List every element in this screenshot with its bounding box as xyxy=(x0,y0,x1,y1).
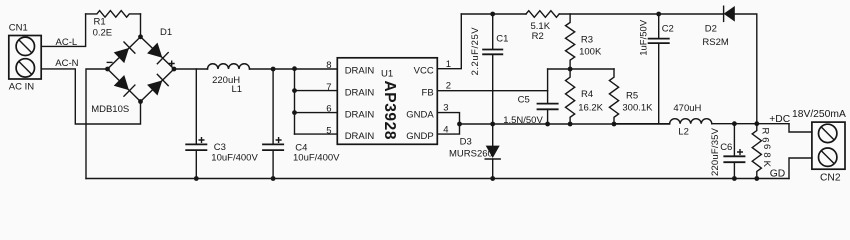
svg-text:AC IN: AC IN xyxy=(9,82,34,93)
diode bottom-left arm xyxy=(114,75,135,96)
svg-text:AC-N: AC-N xyxy=(55,58,78,69)
connector CN2 xyxy=(812,122,845,169)
svg-text:AP3928: AP3928 xyxy=(381,81,398,140)
svg-text:DRAIN: DRAIN xyxy=(345,88,375,99)
svg-text:0.2E: 0.2E xyxy=(93,27,113,38)
svg-text:GNDP: GNDP xyxy=(406,131,433,142)
capacitor C4 xyxy=(272,69,274,144)
wire AC-N xyxy=(41,69,140,124)
wire minus to ground rail xyxy=(86,69,108,179)
svg-text:18V/250mA: 18V/250mA xyxy=(792,109,846,120)
svg-text:R4: R4 xyxy=(581,89,593,100)
svg-text:8: 8 xyxy=(326,60,331,71)
capacitor C6 xyxy=(733,124,735,156)
svg-text:C5: C5 xyxy=(518,95,530,106)
svg-text:R1: R1 xyxy=(94,17,106,28)
svg-text:16.2K: 16.2K xyxy=(578,103,603,114)
svg-text:DRAIN: DRAIN xyxy=(345,131,375,142)
svg-text:300.1K: 300.1K xyxy=(622,103,653,114)
diode top-right arm xyxy=(147,42,168,63)
svg-text:FB: FB xyxy=(422,88,434,99)
top rail right corner down xyxy=(735,14,757,124)
wire GNDP pin4 xyxy=(437,124,459,134)
svg-text:GNDA: GNDA xyxy=(406,110,434,121)
connector CN1 xyxy=(9,36,41,80)
IC left drain bus xyxy=(294,69,296,134)
svg-text:MDB10S: MDB10S xyxy=(91,104,129,115)
diode bottom-right arm xyxy=(147,74,168,95)
minus sign xyxy=(107,61,112,63)
capacitor C2 xyxy=(658,14,660,38)
wire + rail to L1 xyxy=(174,68,208,70)
resistor R6 xyxy=(752,124,761,179)
svg-text:6: 6 xyxy=(326,104,331,115)
svg-text:470uH: 470uH xyxy=(673,103,701,114)
svg-text:10uF/400V: 10uF/400V xyxy=(293,152,340,163)
svg-text:+DC: +DC xyxy=(769,114,790,125)
top rail cont xyxy=(559,13,723,15)
svg-text:RS2M: RS2M xyxy=(702,37,728,48)
svg-text:L1: L1 xyxy=(232,84,243,95)
resistor R5 xyxy=(609,69,618,124)
svg-text:100K: 100K xyxy=(579,47,602,58)
op IC U1 AP3928 xyxy=(337,58,437,145)
inductor L1 xyxy=(208,64,250,69)
svg-text:D1: D1 xyxy=(160,27,172,38)
svg-text:D3: D3 xyxy=(460,136,472,147)
wire output gnd to CN2 xyxy=(789,158,812,179)
svg-text:R5: R5 xyxy=(626,91,638,102)
svg-text:CN2: CN2 xyxy=(820,172,841,183)
svg-text:2.2uF/25V: 2.2uF/25V xyxy=(470,27,481,76)
svg-text:C2: C2 xyxy=(662,23,674,34)
ground rail xyxy=(86,178,789,180)
resistor R4 xyxy=(566,69,575,124)
top rail xyxy=(461,13,526,15)
resistor R1 xyxy=(86,11,141,18)
wire L1 to IC xyxy=(250,68,338,70)
svg-text:3: 3 xyxy=(443,103,448,114)
capacitor C1 xyxy=(492,14,494,49)
resistor R3 xyxy=(566,14,575,69)
svg-text:68K: 68K xyxy=(761,144,772,168)
svg-text:R3: R3 xyxy=(581,35,593,46)
svg-text:L2: L2 xyxy=(678,126,689,137)
svg-text:U1: U1 xyxy=(381,69,393,80)
capacitor C3 xyxy=(195,69,197,144)
svg-text:CN1: CN1 xyxy=(9,23,28,34)
svg-text:1.5N/50V: 1.5N/50V xyxy=(503,115,543,126)
svg-text:1uF/50V: 1uF/50V xyxy=(639,19,650,56)
bridge rectifier D1 MDB10S xyxy=(108,37,175,102)
svg-text:5: 5 xyxy=(326,125,331,136)
node dots bridge xyxy=(138,34,143,39)
svg-text:MURS260: MURS260 xyxy=(449,148,493,159)
wire R1 to bridge top xyxy=(140,14,142,37)
wire VCC pin1 up xyxy=(437,14,461,69)
inductor L2 xyxy=(614,123,670,125)
svg-text:R2: R2 xyxy=(532,31,544,42)
svg-text:220uF/35V: 220uF/35V xyxy=(710,127,721,176)
wire AC-L xyxy=(41,14,85,47)
svg-text:D2: D2 xyxy=(705,23,717,34)
svg-text:10uF/400V: 10uF/400V xyxy=(211,152,258,163)
capacitor C5 xyxy=(547,69,549,103)
diode D3 MURS260 xyxy=(492,124,494,146)
resistor R2 xyxy=(526,11,559,18)
diode top-left arm xyxy=(114,42,135,63)
svg-text:2: 2 xyxy=(446,80,451,91)
diode D2 RS2M xyxy=(724,6,735,22)
svg-text:C6: C6 xyxy=(720,142,732,153)
svg-text:AC-L: AC-L xyxy=(56,37,78,48)
feedback node line xyxy=(548,68,614,70)
svg-text:DRAIN: DRAIN xyxy=(345,110,375,121)
svg-text:GD: GD xyxy=(770,169,785,180)
wire FB pin2 xyxy=(437,90,547,92)
svg-text:C1: C1 xyxy=(496,33,508,44)
svg-text:DRAIN: DRAIN xyxy=(345,66,375,77)
svg-text:R6: R6 xyxy=(759,128,770,143)
wire output plus to CN2 xyxy=(789,124,812,132)
svg-text:7: 7 xyxy=(326,82,331,93)
wire GNDA pin3 xyxy=(437,113,459,124)
switch node line xyxy=(460,123,670,125)
svg-text:VCC: VCC xyxy=(414,66,434,77)
plus sign xyxy=(169,61,174,66)
